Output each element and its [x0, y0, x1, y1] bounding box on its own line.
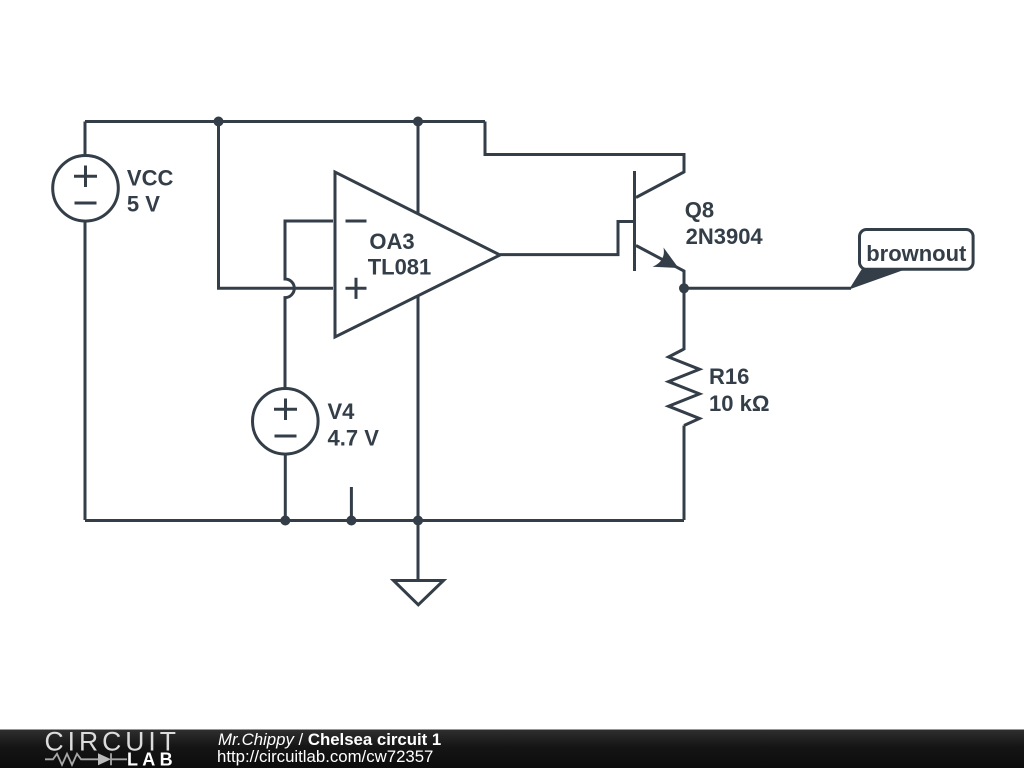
ground stem — [417, 520, 420, 581]
wire bottom rail — [85, 519, 684, 522]
resistor R16 zigzag — [669, 349, 700, 426]
svg-text:10 kΩ: 10 kΩ — [709, 391, 769, 416]
wire op-amp V- supply — [417, 296, 420, 520]
wire VCC top lead — [84, 122, 87, 157]
voltage source VCC — [53, 156, 119, 222]
svg-text:4.7 V: 4.7 V — [328, 426, 380, 451]
transistor Q8 base bar — [633, 171, 636, 271]
resistor R16 bottom lead — [683, 426, 686, 521]
svg-text:OA3: OA3 — [369, 229, 414, 254]
net flag brownout box — [860, 230, 974, 270]
node ground junction dot — [413, 516, 423, 526]
voltage source V4 — [252, 389, 318, 455]
svg-text:Q8: Q8 — [685, 197, 714, 222]
node stub junction dot — [346, 516, 356, 526]
svg-text:R16: R16 — [709, 364, 749, 389]
wire noninverting input from node A — [219, 122, 334, 289]
net flag brownout pointer — [849, 270, 905, 290]
svg-text:brownout: brownout — [866, 241, 967, 266]
ground symbol — [394, 581, 444, 605]
op-amp U1 triangle — [335, 172, 500, 337]
node B junction dot — [413, 117, 423, 127]
wire inverting input with hop over crossing — [285, 221, 333, 388]
node V4 junction dot — [280, 516, 290, 526]
wire VCC bottom lead — [84, 221, 87, 520]
node emitter junction dot — [679, 283, 689, 293]
svg-text:http://circuitlab.com/cw72357: http://circuitlab.com/cw72357 — [217, 747, 433, 766]
logo resistor squiggle — [45, 754, 98, 765]
svg-text:V4: V4 — [328, 399, 356, 424]
footer bar — [0, 730, 1024, 768]
wire collector branch — [485, 122, 684, 198]
transistor Q8 emitter — [636, 246, 684, 289]
wire top rail — [85, 120, 485, 123]
node A junction dot — [214, 117, 224, 127]
op-amp inverting pin mark — [346, 220, 367, 223]
svg-text:2N3904: 2N3904 — [686, 224, 764, 249]
resistor R16 top lead — [683, 288, 686, 350]
svg-text:LAB: LAB — [127, 750, 177, 768]
op-amp noninverting pin mark — [346, 278, 367, 299]
svg-text:5 V: 5 V — [127, 192, 160, 217]
transistor Q8 emitter arrowhead — [653, 248, 679, 269]
svg-text:TL081: TL081 — [368, 254, 432, 279]
wire op-amp V+ supply — [417, 122, 420, 214]
wire V4 bottom lead — [284, 454, 287, 520]
svg-text:VCC: VCC — [127, 166, 174, 191]
logo diode — [98, 753, 111, 765]
wire stub above bottom rail — [350, 487, 353, 520]
wire op-amp output to base — [500, 222, 634, 255]
wire output node to flag — [684, 287, 851, 290]
